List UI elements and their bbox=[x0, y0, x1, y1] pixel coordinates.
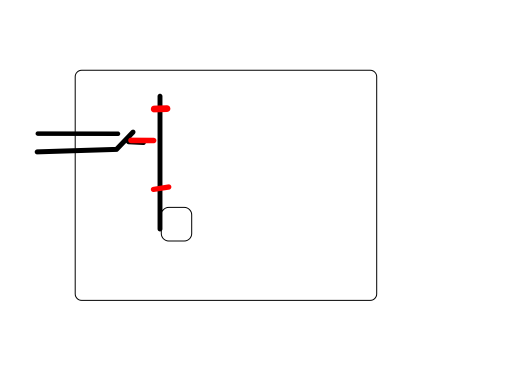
node (top red tick mark) bbox=[154, 105, 167, 112]
wire (vertical bus line) bbox=[158, 96, 163, 229]
wire (short black stub under middle red mark) bbox=[129, 139, 144, 145]
component box (small rounded rectangle) bbox=[161, 207, 191, 241]
wire (bottom-left lead with diagonal switch arm) bbox=[37, 132, 133, 152]
node (bottom red tick mark) bbox=[153, 187, 168, 189]
node (middle red tick mark) bbox=[131, 138, 154, 144]
wire (top-left horizontal lead) bbox=[38, 131, 118, 136]
enclosure box (large rounded rectangle) bbox=[75, 70, 377, 300]
